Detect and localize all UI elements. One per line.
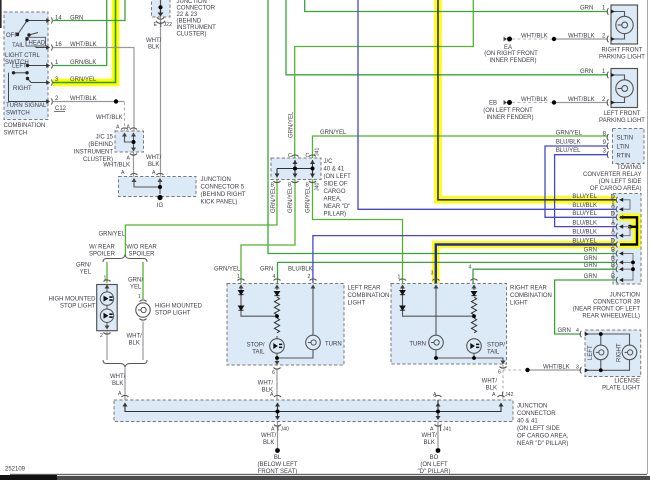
svg-text:22 & 23: 22 & 23 <box>177 12 198 18</box>
svg-text:C: C <box>306 153 310 159</box>
svg-text:WHT/BLK: WHT/BLK <box>521 97 548 103</box>
svg-text:GRN: GRN <box>584 274 597 280</box>
svg-text:GRN/: GRN/ <box>76 263 91 269</box>
svg-text:WHT/BLK: WHT/BLK <box>568 97 595 103</box>
svg-text:GRN/: GRN/ <box>128 278 143 284</box>
svg-text:B: B <box>611 256 615 262</box>
svg-text:PILLAR): PILLAR) <box>324 212 347 218</box>
svg-text:GRN: GRN <box>584 247 597 253</box>
svg-text:BLK: BLK <box>424 440 435 446</box>
svg-text:D: D <box>611 194 616 200</box>
svg-text:252109: 252109 <box>5 467 26 473</box>
svg-text:3: 3 <box>576 365 579 371</box>
svg-text:LEFT: LEFT <box>588 345 594 360</box>
svg-text:WHT/BLK: WHT/BLK <box>521 34 548 40</box>
svg-text:1: 1 <box>138 294 141 300</box>
svg-text:(ON LEFT SIDE: (ON LEFT SIDE <box>517 426 560 432</box>
svg-text:RIGHT: RIGHT <box>617 343 623 362</box>
svg-text:(ON RIGHT FRONT: (ON RIGHT FRONT <box>484 51 538 57</box>
svg-text:INSTRUMENT: INSTRUMENT <box>74 150 114 156</box>
svg-text:COMBINATION: COMBINATION <box>4 123 46 129</box>
svg-text:SIDE OF: SIDE OF <box>324 182 348 188</box>
svg-text:1: 1 <box>104 276 107 282</box>
svg-text:SPOILER: SPOILER <box>89 252 116 258</box>
svg-text:6: 6 <box>272 370 275 376</box>
svg-text:A: A <box>433 392 437 398</box>
svg-text:A: A <box>121 170 125 176</box>
svg-text:HIGH MOUNTED: HIGH MOUNTED <box>155 304 203 310</box>
svg-text:WHT/: WHT/ <box>422 433 438 439</box>
svg-text:HEAD: HEAD <box>29 40 46 46</box>
svg-text:GRN/YEL: GRN/YEL <box>99 232 126 238</box>
svg-text:OF CARGO AREA): OF CARGO AREA) <box>590 186 642 192</box>
svg-text:(ON LEFT: (ON LEFT <box>420 462 448 468</box>
svg-text:WHT/BLK: WHT/BLK <box>543 365 570 371</box>
svg-text:BLK: BLK <box>486 386 497 392</box>
svg-text:STOP/: STOP/ <box>487 343 505 349</box>
svg-text:LTIN: LTIN <box>617 145 630 151</box>
svg-text:(ON LEFT: (ON LEFT <box>324 174 352 180</box>
svg-text:W/ REAR: W/ REAR <box>89 245 115 251</box>
svg-text:14: 14 <box>55 16 62 22</box>
svg-text:COMBINATION: COMBINATION <box>510 293 552 299</box>
svg-text:40 & 41: 40 & 41 <box>517 419 538 425</box>
svg-text:LEFT REAR: LEFT REAR <box>348 286 382 292</box>
svg-text:LIGHT: LIGHT <box>348 301 366 307</box>
svg-text:BLU/BLK: BLU/BLK <box>556 140 581 146</box>
svg-text:D: D <box>611 239 616 245</box>
svg-text:JUNCTION: JUNCTION <box>517 404 547 410</box>
svg-text:A: A <box>271 427 275 433</box>
svg-text:2: 2 <box>100 333 103 339</box>
svg-text:NEAR "D": NEAR "D" <box>324 204 351 210</box>
svg-text:TAIL: TAIL <box>487 350 500 356</box>
svg-text:(BEHIND: (BEHIND <box>88 142 113 148</box>
svg-text:GRN/YEL: GRN/YEL <box>214 267 241 273</box>
svg-text:STOP/: STOP/ <box>247 343 265 349</box>
svg-text:16: 16 <box>55 42 62 48</box>
svg-text:SWITCH: SWITCH <box>4 131 28 137</box>
svg-text:J/C: J/C <box>324 159 334 165</box>
svg-text:YEL: YEL <box>80 270 92 276</box>
svg-text:INNER FENDER): INNER FENDER) <box>486 115 533 121</box>
svg-text:IG: IG <box>157 203 164 209</box>
svg-text:LEFT: LEFT <box>12 64 27 70</box>
svg-text:1: 1 <box>398 275 401 281</box>
svg-text:JUNCTION: JUNCTION <box>201 177 231 183</box>
svg-text:BLU/YEL: BLU/YEL <box>572 238 597 244</box>
svg-text:1: 1 <box>237 274 240 280</box>
svg-text:LIGHT CTRL: LIGHT CTRL <box>5 53 41 59</box>
svg-text:BLU/YEL: BLU/YEL <box>556 148 581 154</box>
svg-text:GRN: GRN <box>260 267 273 273</box>
svg-text:STOP LIGHT: STOP LIGHT <box>155 311 191 317</box>
svg-text:RIGHT: RIGHT <box>13 86 32 92</box>
svg-text:INNER FENDER): INNER FENDER) <box>489 58 536 64</box>
svg-text:NEAR "D" PILLAR): NEAR "D" PILLAR) <box>517 441 568 447</box>
svg-text:BO: BO <box>430 455 439 461</box>
svg-text:LIGHT: LIGHT <box>510 301 528 307</box>
svg-text:OF CARGO AREA,: OF CARGO AREA, <box>517 434 569 440</box>
svg-text:B: B <box>611 248 615 254</box>
svg-text:4: 4 <box>469 265 472 271</box>
svg-text:4: 4 <box>576 328 579 334</box>
svg-text:WHT/: WHT/ <box>146 38 162 44</box>
svg-text:CONNECTOR 39: CONNECTOR 39 <box>593 300 641 306</box>
svg-text:A: A <box>611 203 615 209</box>
svg-text:LICENSE: LICENSE <box>614 379 640 385</box>
svg-text:CONNECTOR 5: CONNECTOR 5 <box>201 185 245 191</box>
svg-text:CLUSTER): CLUSTER) <box>177 32 207 38</box>
svg-text:YEL: YEL <box>130 285 142 291</box>
svg-text:WHT/: WHT/ <box>146 155 162 161</box>
svg-text:RIGHT FRONT: RIGHT FRONT <box>602 48 643 54</box>
svg-text:INSTRUMENT: INSTRUMENT <box>177 25 217 31</box>
svg-text:PLATE LIGHT: PLATE LIGHT <box>602 386 640 392</box>
svg-text:4: 4 <box>273 274 276 280</box>
svg-text:WHT/BLK: WHT/BLK <box>103 163 130 169</box>
svg-text:A: A <box>270 392 274 398</box>
svg-text:D: D <box>611 211 616 217</box>
svg-text:J41: J41 <box>315 148 321 156</box>
svg-text:(BELOW LEFT: (BELOW LEFT <box>257 462 297 468</box>
svg-text:A: A <box>118 391 122 397</box>
svg-text:AREA,: AREA, <box>324 197 342 203</box>
svg-text:WHT/: WHT/ <box>127 334 143 340</box>
svg-text:GRN: GRN <box>70 16 83 22</box>
svg-text:GRN/YEL: GRN/YEL <box>288 186 294 213</box>
svg-text:WHT/BLK: WHT/BLK <box>70 42 97 48</box>
svg-text:B: B <box>611 263 615 269</box>
svg-text:PARKING LIGHT: PARKING LIGHT <box>599 55 645 61</box>
svg-text:CONNECTOR: CONNECTOR <box>517 411 556 417</box>
svg-text:RIGHT REAR: RIGHT REAR <box>510 286 548 292</box>
svg-text:GRN: GRN <box>580 69 593 75</box>
svg-text:A: A <box>611 230 615 236</box>
svg-text:KICK PANEL): KICK PANEL) <box>201 200 238 206</box>
svg-text:JUNCTION: JUNCTION <box>177 0 207 5</box>
svg-text:TURN SIGNAL: TURN SIGNAL <box>6 103 47 109</box>
svg-text:J42: J42 <box>505 392 513 398</box>
svg-text:2: 2 <box>308 274 311 280</box>
svg-text:A: A <box>611 221 615 227</box>
svg-text:BLK: BLK <box>129 341 140 347</box>
svg-text:BLK: BLK <box>148 162 159 168</box>
svg-text:TURN: TURN <box>325 342 342 348</box>
svg-text:GRN/YEL: GRN/YEL <box>320 130 347 136</box>
svg-text:GRN: GRN <box>580 6 593 12</box>
svg-text:JUNCTION: JUNCTION <box>610 293 640 299</box>
svg-text:BLK: BLK <box>263 440 274 446</box>
svg-text:E: E <box>154 22 158 28</box>
svg-text:WHT/: WHT/ <box>482 379 498 385</box>
svg-text:WHT/BLK: WHT/BLK <box>568 34 595 40</box>
svg-text:WHT/: WHT/ <box>110 374 126 380</box>
svg-text:WHT/: WHT/ <box>261 433 277 439</box>
svg-text:A: A <box>127 125 131 131</box>
svg-text:RTIN: RTIN <box>617 154 631 160</box>
svg-text:GRN/YEL: GRN/YEL <box>556 131 583 137</box>
svg-text:SWITCH: SWITCH <box>6 111 30 117</box>
svg-text:REAR WHEELWELL): REAR WHEELWELL) <box>582 314 640 320</box>
svg-text:TAIL: TAIL <box>252 350 265 356</box>
svg-text:TOWING: TOWING <box>617 165 642 171</box>
svg-text:BLU/BLK: BLU/BLK <box>572 203 597 209</box>
svg-text:SLTIN: SLTIN <box>617 136 634 142</box>
svg-text:LEFT FRONT: LEFT FRONT <box>604 111 641 117</box>
svg-text:BL: BL <box>274 455 282 461</box>
svg-text:COMBINATION: COMBINATION <box>348 293 390 299</box>
svg-text:(NEAR FRONT OF LEFT: (NEAR FRONT OF LEFT <box>573 307 641 313</box>
svg-text:GRN: GRN <box>584 263 597 269</box>
svg-text:6: 6 <box>498 370 501 376</box>
svg-text:CARGO: CARGO <box>324 189 346 195</box>
svg-text:A: A <box>127 156 131 162</box>
svg-text:BLU/BLK: BLU/BLK <box>572 220 597 226</box>
svg-text:WHT/: WHT/ <box>258 381 274 387</box>
svg-text:GRN/YEL: GRN/YEL <box>70 77 97 83</box>
svg-text:J41: J41 <box>443 427 451 433</box>
svg-text:WHT/BLK: WHT/BLK <box>70 96 97 102</box>
svg-text:TURN: TURN <box>409 342 426 348</box>
svg-text:GRN/YEL: GRN/YEL <box>289 111 295 138</box>
svg-text:3: 3 <box>431 271 434 277</box>
svg-text:SPOILER: SPOILER <box>128 252 155 258</box>
svg-text:CONVERTER RELAY: CONVERTER RELAY <box>583 172 641 178</box>
svg-text:A: A <box>492 392 496 398</box>
svg-text:J22: J22 <box>164 22 172 28</box>
svg-text:GRN/YEL: GRN/YEL <box>271 186 277 213</box>
svg-text:EB: EB <box>489 100 497 106</box>
svg-text:GRN/BLK: GRN/BLK <box>70 60 96 66</box>
svg-text:40 & 41: 40 & 41 <box>324 167 345 173</box>
svg-text:(ON LEFT SIDE: (ON LEFT SIDE <box>599 179 642 185</box>
svg-text:WHT/BLK: WHT/BLK <box>96 115 123 121</box>
svg-text:(BEHIND: (BEHIND <box>177 19 202 25</box>
svg-text:CONNECTOR: CONNECTOR <box>177 6 216 12</box>
svg-text:BLK: BLK <box>112 381 123 387</box>
svg-text:GRN/YEL: GRN/YEL <box>306 186 312 213</box>
svg-text:BLU/YEL: BLU/YEL <box>572 211 597 217</box>
svg-text:HIGH MOUNTED: HIGH MOUNTED <box>49 297 97 303</box>
svg-text:A: A <box>116 125 120 131</box>
svg-text:A: A <box>152 170 156 176</box>
svg-text:BLU/BLK: BLU/BLK <box>572 229 597 235</box>
svg-text:BLK: BLK <box>148 45 159 51</box>
svg-text:W/O REAR: W/O REAR <box>126 245 157 251</box>
svg-text:BLU/BLK: BLU/BLK <box>288 267 313 273</box>
svg-text:(ON LEFT FRONT: (ON LEFT FRONT <box>483 108 533 114</box>
svg-text:B: B <box>611 274 615 280</box>
svg-text:J40: J40 <box>315 183 321 191</box>
svg-text:C: C <box>288 153 292 159</box>
svg-text:(BEHIND RIGHT: (BEHIND RIGHT <box>201 192 246 198</box>
svg-text:GRN: GRN <box>584 256 597 262</box>
svg-text:GRN: GRN <box>558 328 571 334</box>
svg-text:A: A <box>430 427 434 433</box>
svg-text:J40: J40 <box>281 427 289 433</box>
svg-text:BLU/YEL: BLU/YEL <box>572 194 597 200</box>
svg-text:TAIL: TAIL <box>12 43 25 49</box>
svg-text:J/C 15: J/C 15 <box>96 135 114 141</box>
svg-text:OFF: OFF <box>6 33 18 39</box>
svg-text:STOP LIGHT: STOP LIGHT <box>60 304 96 310</box>
svg-text:PARKING LIGHT: PARKING LIGHT <box>599 118 645 124</box>
